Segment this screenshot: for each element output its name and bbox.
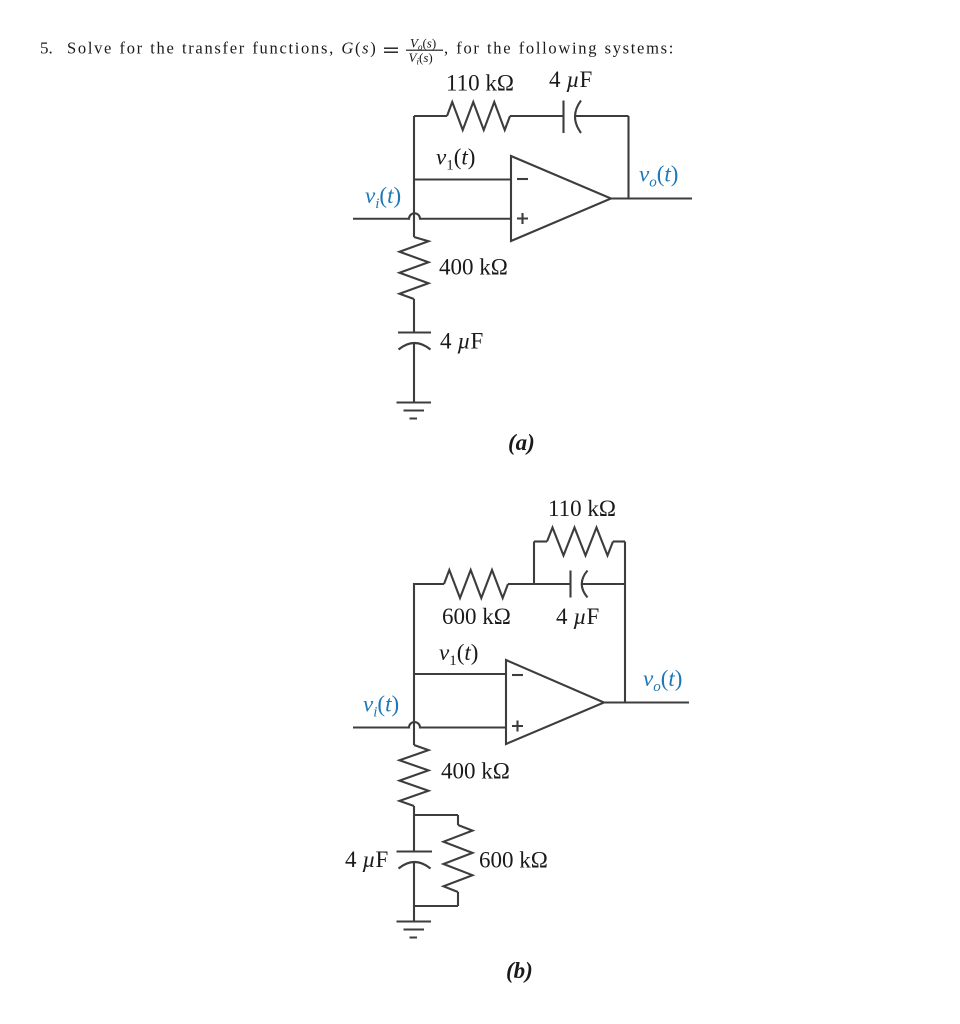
wire (b) bottom junction horizontal [413, 905, 458, 907]
wire (b) 600k branch top vertical [457, 815, 459, 825]
title equals sign [384, 48, 398, 52]
resistor R6 600 kOhm (b bottom) vertical zigzag [444, 825, 473, 892]
wire (a) feedback right vertical down to output node [627, 116, 629, 199]
wire (a) vi input with hop over vertical branch [353, 213, 511, 219]
svg-text:110 kΩ: 110 kΩ [446, 71, 514, 96]
ground (a) symbol [397, 403, 432, 419]
svg-text:400 kΩ: 400 kΩ [441, 759, 510, 784]
wire (b) junction down to 4uF capacitor [413, 815, 415, 851]
resistor R4 110 kOhm (b) zigzag [547, 528, 613, 556]
wire (b) 110k branch right segment [613, 540, 625, 542]
wire (b) 400k resistor to parallel junction [413, 806, 415, 815]
wire (a) feedback left vertical from top wire down to 400k resistor [413, 116, 415, 237]
svg-text:vi(t): vi(t) [365, 183, 401, 212]
wire (b) vi input with hop over vertical branch [353, 722, 506, 727]
svg-text:600 kΩ: 600 kΩ [442, 604, 511, 629]
resistor R1 110 kOhm (a) zigzag [447, 102, 510, 130]
svg-text:600 kΩ: 600 kΩ [479, 848, 548, 873]
capacitor C1 4uF (a top) curved plate [575, 101, 581, 134]
title fraction bar [406, 49, 443, 51]
wire (a) node v1 to op-amp minus input [414, 178, 511, 180]
svg-text:v1(t): v1(t) [436, 145, 475, 174]
op-amp U1 (a) plus input sign [517, 213, 528, 224]
wire (b) node v1 to op-amp minus input [414, 673, 506, 675]
svg-text:vo(t): vo(t) [639, 162, 678, 191]
svg-text:110 kΩ: 110 kΩ [548, 496, 616, 521]
svg-text:4 µF: 4 µF [549, 67, 592, 92]
svg-text:400 kΩ: 400 kΩ [439, 255, 508, 280]
resistor R5 400 kOhm (b) vertical zigzag [400, 745, 429, 806]
op-amp U2 (b) minus input sign [512, 674, 523, 676]
op-amp U1 (a) minus input sign [517, 178, 528, 180]
capacitor C1 4uF (a top) flat plate [562, 101, 564, 134]
svg-text:4 µF: 4 µF [345, 847, 388, 872]
op-amp U2 (b) plus input sign [512, 721, 523, 732]
wire (a) between 110k resistor and 4uF capacitor [510, 115, 564, 117]
svg-text:, for the following systems:: , for the following systems: [444, 39, 675, 58]
svg-text:vo(t): vo(t) [643, 666, 682, 695]
svg-text:5.: 5. [40, 39, 53, 58]
svg-text:Solve for the transfer functio: Solve for the transfer functions, G(s) [67, 39, 377, 58]
capacitor C2 4uF (a bottom) curved plate [399, 343, 431, 350]
wire (a) output from op-amp apex [611, 197, 692, 199]
ground (b) symbol [397, 922, 432, 938]
capacitor C2 4uF (a bottom) flat plate [398, 331, 431, 333]
capacitor C4 4uF (b bottom) flat plate [397, 850, 433, 852]
wire (a) feedback top, left segment [414, 115, 447, 117]
wire (b) 600k branch bottom vertical [457, 892, 459, 906]
svg-text:(a): (a) [508, 430, 535, 455]
op-amp U1 (a) triangle [511, 156, 611, 241]
wire (b) capacitor to right vertical [582, 583, 625, 585]
svg-text:Vi(s): Vi(s) [409, 50, 433, 67]
capacitor C3 4uF (b) flat plate [569, 571, 571, 598]
svg-text:4 µF: 4 µF [440, 329, 483, 354]
wire (b) right vertical from 110k branch down to output node [624, 542, 626, 703]
op-amp U2 (b) triangle [506, 660, 604, 744]
svg-text:vi(t): vi(t) [363, 692, 399, 721]
wire (b) 110k branch left horizontal segment [534, 540, 547, 542]
wire (b) junction top horizontal to 600k branch [413, 814, 458, 816]
wire (a) capacitor to ground [413, 344, 415, 403]
wire (b) output from op-amp apex [604, 701, 689, 703]
wire (a) 400k resistor to 4uF capacitor [413, 299, 415, 333]
svg-text:(b): (b) [506, 958, 533, 983]
wire (b) between 600k resistor and 4uF capacitor [508, 583, 571, 585]
wire (a) capacitor to feedback right vertical [575, 115, 629, 117]
resistor R2 400 kOhm (a) vertical zigzag [400, 237, 429, 299]
wire (b) 110k branch left vertical connector [533, 542, 535, 585]
wire (b) left corner: main feedback horizontal start and vertical down to 400k [414, 584, 444, 745]
resistor R3 600 kOhm (b) zigzag [444, 570, 508, 598]
capacitor C4 4uF (b bottom) curved plate [399, 862, 431, 869]
capacitor C3 4uF (b) curved plate [582, 571, 588, 598]
svg-text:v1(t): v1(t) [439, 640, 478, 669]
svg-text:4 µF: 4 µF [556, 604, 599, 629]
wire (b) capacitor down to ground through bottom junction [413, 863, 415, 922]
